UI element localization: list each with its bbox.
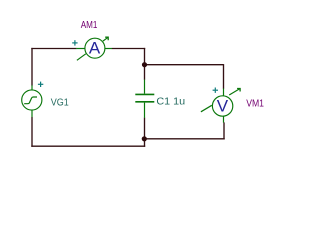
wire right top rail	[145, 64, 224, 66]
AM1 circle body	[85, 38, 105, 58]
AM1 plus sign	[72, 40, 77, 45]
AM1 right terminal stub	[105, 48, 112, 50]
VG1 circle body	[22, 90, 42, 110]
svg-text:V: V	[217, 97, 229, 116]
AM1 arrow head shaft	[103, 37, 108, 41]
wire trunk lower (capacitor to bottom corner)	[144, 118, 146, 147]
VM1 bottom terminal stub	[223, 116, 225, 122]
svg-text:A: A	[89, 39, 101, 58]
VM1 arrow head	[237, 89, 240, 92]
C1 bottom lead	[144, 103, 146, 118]
wire right bottom rail	[144, 138, 225, 140]
wire voltmeter vertical upper	[223, 64, 225, 89]
wire voltmeter vertical lower	[223, 122, 225, 139]
wire left rail lower	[31, 117, 33, 147]
AM1 arrow tail segment	[77, 54, 86, 61]
C1 top lead	[144, 80, 146, 94]
svg-text:AM1: AM1	[81, 20, 98, 31]
ammeter AM1	[72, 37, 112, 60]
VM1 plus sign	[213, 88, 218, 93]
svg-text:VM1: VM1	[246, 99, 264, 110]
wire trunk upper (top corner to capacitor)	[144, 48, 146, 80]
wire left bottom rail	[31, 145, 145, 147]
VG1 bottom terminal stub	[31, 110, 33, 117]
AM1 left terminal stub	[76, 48, 85, 50]
VG1 top terminal stub	[31, 85, 33, 90]
VM1 circle body	[212, 96, 232, 116]
AM1 arrow head	[105, 37, 108, 40]
VM1 arrow head shaft	[229, 89, 240, 96]
wire top rail right segment	[112, 48, 145, 50]
capacitor C1	[135, 80, 154, 118]
svg-text:VG1: VG1	[51, 98, 69, 109]
C1 bottom plate	[135, 101, 154, 103]
junction dot node 1 (top of capacitor branch)	[142, 62, 147, 67]
VM1 top terminal stub	[223, 89, 225, 96]
wire top rail left segment	[31, 48, 76, 50]
VG1 waveform symbol	[24, 97, 37, 104]
VM1 arrow tail segment	[201, 105, 212, 112]
VG1 plus sign	[38, 82, 43, 87]
voltage generator VG1	[22, 82, 44, 118]
svg-text:C1 1u: C1 1u	[156, 97, 185, 108]
voltmeter VM1	[201, 88, 240, 123]
wire top-left vertical (left rail upper)	[31, 48, 33, 86]
junction dot node 2 (bottom of capacitor branch)	[142, 136, 147, 141]
C1 top plate	[135, 93, 154, 95]
